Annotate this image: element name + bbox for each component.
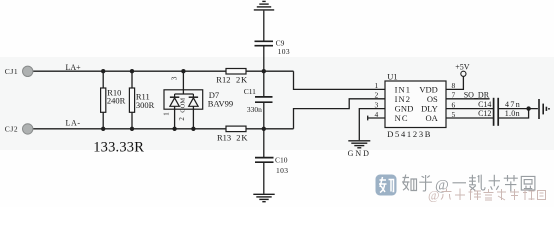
junction R10 bottom [101,127,105,131]
U1 left pin numbers [375,81,379,119]
wire capacitor column segment C9 to C11 [263,46,265,96]
watermark text zhihu user [402,175,535,192]
junction R11 top [130,69,134,73]
svg-text:3: 3 [170,76,178,80]
svg-text:COM: COM [179,98,186,113]
wire U1 pin4 NC stub [368,117,385,119]
svg-text:5: 5 [452,110,456,119]
+5V terminal circle [461,71,466,76]
svg-text:8: 8 [452,81,456,90]
svg-text:3: 3 [375,100,379,109]
svg-text:6: 6 [452,100,456,109]
wire LA- step to pin2 [294,99,386,129]
svg-text:2: 2 [375,91,379,100]
capacitor C14 plates [494,98,499,112]
label C11 330n [244,87,262,114]
svg-text:300R: 300R [136,100,155,110]
junction R11 bottom [130,127,134,131]
svg-text:1: 1 [162,112,170,116]
capacitor C10 [255,158,274,163]
no-connect bar pin4 [367,116,369,121]
wire D7 pin2 lead [192,106,194,129]
svg-text:133.33R: 133.33R [93,140,144,156]
wire LA+ rail [33,70,294,72]
wire U1 pin3 to GND [359,109,385,141]
capacitor C11 [255,97,273,102]
svg-text:NC: NC [395,113,409,123]
capacitor C9 [255,41,274,45]
svg-text:GND: GND [348,149,371,158]
svg-text:U1: U1 [387,72,397,82]
diode D7 BAV99 [164,90,203,109]
resistor R13 [226,126,246,132]
capacitor C12 plates [494,112,499,126]
U1 right pin numbers [452,81,456,119]
svg-text:IN2: IN2 [395,94,412,104]
svg-text:47n: 47n [505,100,521,109]
junction D7 pin2 [191,127,195,131]
junction D7 pin1 [172,127,176,131]
label C9 103 [276,38,290,55]
wire R11 vertical [131,71,133,129]
connector CJ2 [23,124,33,134]
svg-text:2K: 2K [236,75,248,85]
svg-text:OS: OS [427,94,438,104]
watermark text juejin community [428,189,546,203]
svg-text:LA+: LA+ [66,63,82,72]
wire U1 pin5 to C12 [446,117,493,119]
junction R10 top [101,69,105,73]
IC U1 D54123B [385,81,446,128]
wire capacitor column segment C11 to C10 [263,103,265,158]
ground symbol bottom [253,194,274,201]
wire LA- rail [33,128,294,130]
junction C12 C14 ground node [526,106,530,110]
resistor R11 [129,88,134,112]
wire U1 pin6 to C14 [446,108,493,110]
label D7 BAV99 [208,90,233,108]
U1 left pin labels [395,84,414,122]
label C14 47n [478,100,521,109]
svg-text:SO_DR: SO_DR [464,90,490,99]
wire LA+ step to pin1 [294,71,386,89]
wire D7 pin1 lead [174,106,176,129]
svg-text:D54123B: D54123B [387,129,432,139]
wire C14 to ground [498,108,538,110]
wire C12 up to ground node [498,109,528,118]
svg-text:2K: 2K [236,132,248,142]
svg-text:C10: C10 [275,155,288,164]
svg-text:1.0n: 1.0n [505,109,520,118]
svg-text:103: 103 [276,166,288,175]
svg-text:7: 7 [452,91,456,100]
svg-text:R12: R12 [216,75,230,85]
svg-text:CJ2: CJ2 [5,125,18,134]
svg-text:+5V: +5V [455,62,470,71]
ground symbol top [254,1,274,10]
svg-text:R13: R13 [217,132,231,142]
junction D7 pin3 [181,69,185,73]
label C12 1.0n [478,109,520,118]
svg-text:@: @ [428,189,440,203]
svg-text:1: 1 [375,81,379,90]
ground symbol right [539,99,549,119]
connector CJ1 [23,66,33,76]
svg-text:C11: C11 [244,87,256,96]
resistor R12 [226,69,246,75]
watermark Zhihu logo [376,175,397,196]
label C10 103 [275,155,288,175]
wire U1 pin7 SO_DR [446,98,490,100]
svg-text:BAV99: BAV99 [208,99,233,109]
wire U1 pin8 to +5V [446,76,463,89]
junction C column LA+ [262,69,266,73]
wire D7 pin3 lead [182,71,184,94]
svg-text:C12: C12 [478,109,491,118]
resistor R10 [101,88,106,112]
svg-text:LA-: LA- [66,119,81,128]
wire capacitor column segment C10 to ground [263,163,265,194]
svg-text:CJ1: CJ1 [5,67,18,76]
svg-text:OA: OA [426,113,439,123]
ground symbol GND near U1 [348,141,370,148]
svg-text:240R: 240R [107,96,126,106]
svg-text:2: 2 [178,117,186,121]
junction C column LA- [262,127,266,131]
wire capacitor column segment top [263,11,265,41]
label R10 240R [107,87,126,105]
label R11 300R [136,92,155,110]
wire R10 vertical [102,71,104,129]
junction dots [101,69,531,131]
U1 right pin labels [419,84,438,122]
svg-text:103: 103 [278,47,290,56]
svg-text:4: 4 [375,110,379,119]
svg-text:330n: 330n [247,105,262,114]
svg-text:C14: C14 [478,100,491,109]
